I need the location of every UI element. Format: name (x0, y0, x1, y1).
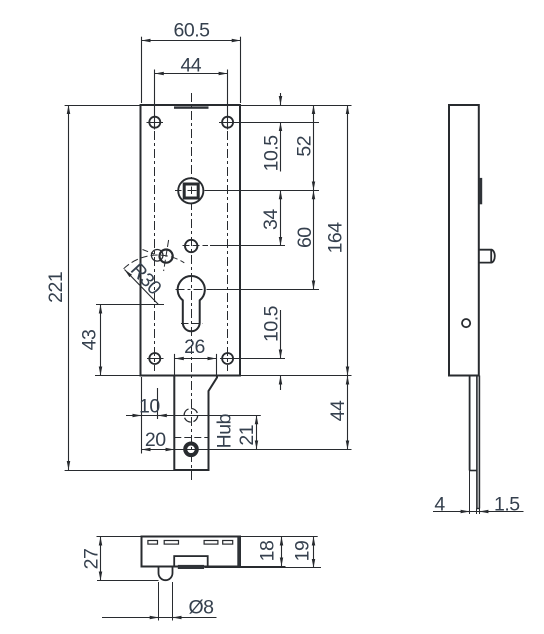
svg-text:10.5: 10.5 (261, 135, 283, 172)
dimension 44 top (154, 70, 156, 130)
bottom view tail step (174, 556, 208, 566)
screw hole bottom right (222, 353, 233, 364)
side view case outline (449, 105, 479, 376)
extension line pin hole right (174, 449, 351, 451)
dimension 10.5 bottom (280, 310, 282, 359)
dimension 164 (347, 105, 349, 376)
tail plate outline (174, 376, 217, 471)
extension pin sides (158, 582, 160, 621)
bottom view slot 4 (223, 541, 233, 545)
spindle square hole (184, 184, 198, 198)
svg-text:19: 19 (292, 541, 314, 562)
svg-text:4: 4 (434, 493, 445, 515)
dimension 44 right bottom (347, 376, 349, 450)
dimension 19 (313, 537, 315, 568)
svg-text:18: 18 (257, 541, 279, 562)
svg-text:10.5: 10.5 (261, 305, 283, 342)
tail pin hole ring (185, 444, 197, 456)
spindle follower circle (178, 178, 203, 203)
dimension 10.5 top (280, 93, 282, 105)
tail dashed stroke line (174, 437, 208, 439)
dimension 43 (95, 375, 141, 377)
svg-text:Hub: Hub (214, 413, 236, 448)
side view spindle hub tab (479, 178, 482, 204)
swivel hole phantom circle (151, 250, 163, 262)
dimension diameter 8 (102, 617, 217, 619)
centerline vertical middle (191, 93, 193, 481)
svg-text:60.5: 60.5 (174, 20, 211, 42)
dimension 18 (281, 537, 283, 567)
extension bottom view bottom right (241, 566, 286, 568)
svg-text:60: 60 (294, 227, 316, 248)
svg-text:26: 26 (184, 336, 205, 358)
svg-text:27: 27 (80, 549, 102, 570)
cylinder centerline dashed (176, 289, 206, 291)
svg-text:21: 21 (236, 425, 258, 446)
euro profile cylinder hole (178, 276, 205, 331)
swivel hole circle (160, 250, 173, 263)
spindle center cross dashes (188, 190, 197, 192)
extension spindle center (205, 190, 320, 192)
screw hole bottom left (149, 353, 160, 364)
bottom view slot 3 (204, 541, 218, 545)
dimension 221 (65, 105, 141, 107)
svg-text:34: 34 (260, 209, 282, 230)
swivel phantom tick dashed (143, 250, 155, 255)
bottom view tail bar (178, 565, 204, 569)
side view tail bottom tick (470, 470, 477, 472)
side view tail left edge (469, 376, 471, 471)
tail phantom hole dashed circle (184, 409, 198, 423)
centerline right hole column (227, 131, 229, 371)
extension cylinder center (207, 289, 320, 291)
centerline left hole column (154, 131, 156, 371)
dimension 60.5 (141, 37, 143, 103)
side view screw hole (462, 319, 470, 327)
top plate slot tab (174, 106, 209, 108)
R30 leader line (125, 270, 159, 305)
svg-text:221: 221 (45, 272, 67, 303)
extension nub center (183, 245, 209, 247)
side view nub pin (479, 250, 495, 263)
cross line top left hole (147, 122, 164, 124)
front view lock case outline (141, 105, 241, 376)
extension faceplate edges (476, 509, 478, 515)
bottom view faceplate edge band (237, 537, 240, 566)
R30 center extension line (96, 304, 164, 306)
dimension 26 (174, 354, 176, 375)
svg-text:20: 20 (145, 429, 166, 451)
cylinder lower screw centerline dashed (181, 323, 202, 325)
bottom view outline (142, 537, 241, 567)
dimension 34 (280, 190, 282, 246)
dimension 10 (141, 377, 143, 454)
swivel travel dashed arc R30 (124, 255, 185, 269)
bottom view pin post (158, 567, 160, 574)
stop nub hole (185, 240, 197, 252)
swivel axis dashed line (164, 240, 169, 271)
extension tail bar bottom (205, 567, 322, 569)
dimension 20 (142, 449, 175, 451)
screw hole top right (222, 117, 233, 128)
dimension 52 (313, 105, 315, 190)
svg-text:52: 52 (294, 136, 316, 157)
svg-text:R30: R30 (126, 259, 166, 300)
svg-text:164: 164 (325, 222, 347, 254)
extension bottom edge right (240, 375, 352, 377)
extension bottom right hole (220, 358, 285, 360)
side view faceplate bottom tick (477, 508, 480, 510)
dimension Hub 21 (256, 415, 258, 449)
svg-text:43: 43 (79, 330, 101, 351)
extension bottom view top right (241, 536, 318, 538)
dimension 27 (97, 536, 142, 538)
svg-text:44: 44 (327, 400, 349, 421)
bottom view slot 2 (164, 541, 178, 545)
cross line bottom left hole (147, 358, 164, 360)
spindle centerline left stub (175, 190, 182, 192)
svg-text:Ø8: Ø8 (188, 597, 213, 619)
extension top right hole (219, 122, 319, 124)
svg-text:44: 44 (180, 55, 201, 77)
svg-text:1.5: 1.5 (494, 493, 520, 515)
bottom view slot 1 (148, 541, 158, 545)
side view faceplate right edge (478, 376, 480, 509)
side view faceplate left edge (476, 376, 478, 509)
dimension 4 and 1.5 line (433, 511, 524, 513)
extension top edge right (240, 105, 352, 107)
svg-text:10: 10 (139, 395, 160, 417)
extension pin tip (97, 580, 159, 582)
screw hole top left (149, 117, 160, 128)
dimension 60 (313, 190, 315, 289)
extension tail edge (469, 471, 471, 515)
